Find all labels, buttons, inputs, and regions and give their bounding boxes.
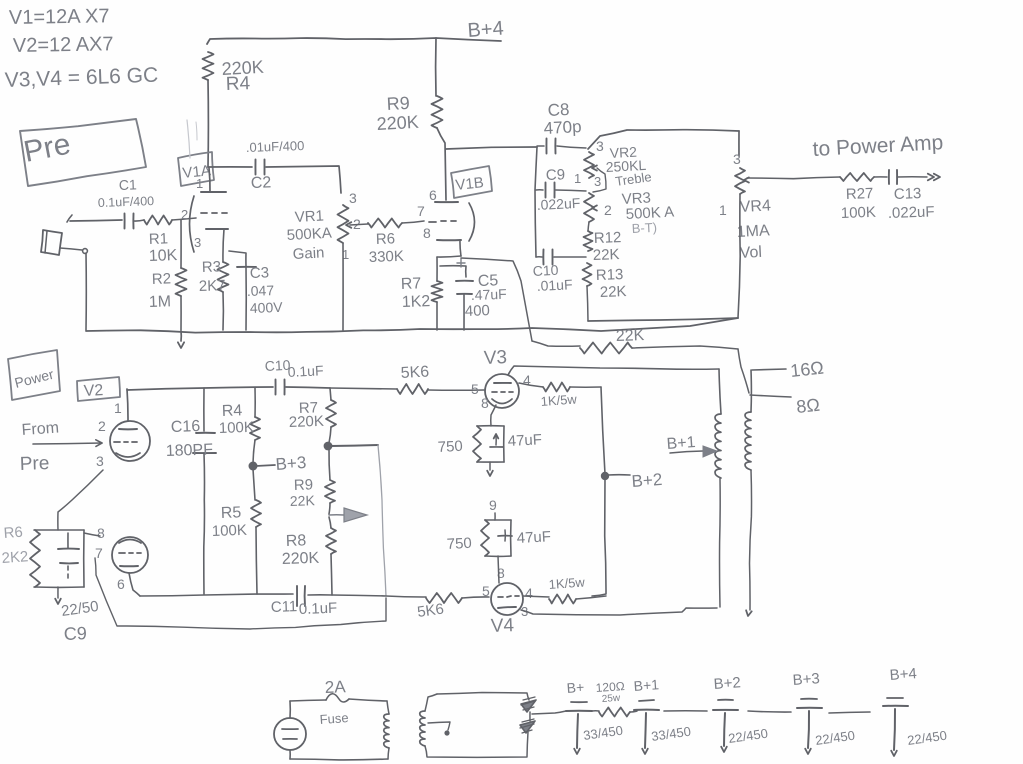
resistor 1K/5w V4 screen [523, 574, 606, 603]
capacitor filter B+4 [883, 665, 948, 756]
wire rectifier output [532, 711, 566, 714]
svg-text:470p: 470p [543, 117, 582, 138]
wire rail to 5K6 V3 [330, 388, 397, 389]
wire tone left rail [535, 147, 537, 257]
svg-text:B+4: B+4 [467, 18, 505, 42]
svg-text:4: 4 [525, 585, 533, 601]
resistor 1K/5w V3 screen [519, 383, 601, 409]
svg-text:6: 6 [429, 187, 437, 203]
tap 8 ohm [750, 395, 821, 417]
svg-text:750: 750 [446, 535, 472, 553]
resistor R5 [212, 469, 261, 594]
svg-text:C16: C16 [171, 418, 201, 436]
svg-text:7: 7 [417, 203, 425, 219]
wire R4 to plate node [207, 80, 209, 167]
svg-text:V2=12 AX7: V2=12 AX7 [13, 33, 114, 57]
wire lower rail left [140, 594, 293, 596]
svg-text:.01uF/400: .01uF/400 [246, 138, 305, 155]
svg-text:1: 1 [719, 202, 727, 218]
wire V4 plate [521, 608, 717, 615]
svg-text:V3: V3 [483, 347, 507, 369]
resistor R1 [144, 216, 178, 265]
svg-text:5K6: 5K6 [416, 600, 445, 621]
svg-text:2: 2 [98, 418, 106, 434]
cathode network V4 750 47uF [446, 497, 551, 583]
pot VR3 bass [584, 189, 675, 236]
input jack [41, 230, 87, 255]
capacitor C5 [440, 259, 507, 330]
svg-text:8Ω: 8Ω [795, 395, 820, 417]
svg-text:22K: 22K [290, 492, 316, 509]
capacitor C16 [166, 388, 216, 594]
net B+4 label [467, 18, 505, 42]
capacitor C3 [229, 251, 283, 330]
capacitor C11 [271, 586, 338, 618]
svg-text:9: 9 [489, 497, 497, 513]
svg-text:100K: 100K [219, 419, 255, 437]
cathode network V3 750 47uF [437, 405, 542, 476]
svg-text:500KA: 500KA [286, 225, 332, 244]
svg-text:B+1: B+1 [633, 676, 660, 694]
svg-text:Gain: Gain [292, 244, 325, 263]
svg-text:3: 3 [96, 453, 104, 469]
svg-text:R27: R27 [846, 185, 874, 203]
svg-text:47uF: 47uF [516, 528, 551, 547]
triode V1A [181, 176, 228, 252]
svg-text:.022uF: .022uF [888, 203, 935, 222]
svg-text:47uF: 47uF [507, 431, 542, 450]
svg-text:R6: R6 [376, 230, 396, 248]
pot VR2 treble [584, 144, 652, 189]
svg-text:B+3: B+3 [275, 453, 307, 474]
tube V2 upper triode [96, 400, 150, 469]
node B+3 [249, 453, 307, 474]
label Pre box [20, 119, 146, 186]
svg-text:22/50: 22/50 [60, 598, 100, 620]
wire jack to C1 [67, 215, 122, 222]
note tube list V3 V4 [4, 64, 158, 92]
svg-text:.01uF: .01uF [536, 276, 573, 294]
svg-text:Power: Power [13, 366, 56, 391]
capacitor C9 [536, 166, 586, 213]
svg-text:V1B: V1B [455, 174, 485, 194]
svg-text:22/450: 22/450 [814, 728, 855, 748]
node B+2 [601, 470, 663, 491]
svg-text:400V: 400V [250, 299, 284, 316]
svg-text:.47uF: .47uF [471, 286, 507, 303]
svg-text:R7: R7 [401, 275, 422, 293]
resistor R2 grid leak [149, 220, 187, 330]
svg-text:B-T): B-T) [631, 220, 657, 236]
svg-text:B+3: B+3 [792, 670, 820, 689]
svg-text:1K/5w: 1K/5w [540, 391, 578, 409]
capacitor filter B+2 [713, 674, 769, 752]
svg-text:400: 400 [465, 302, 491, 320]
note tube list V2 [13, 33, 114, 57]
svg-text:2K7: 2K7 [199, 277, 226, 295]
label V2 box [77, 377, 120, 401]
svg-text:0.1uF: 0.1uF [287, 362, 324, 380]
svg-text:1: 1 [114, 400, 122, 416]
svg-text:22/450: 22/450 [727, 726, 768, 746]
svg-text:3: 3 [594, 174, 601, 189]
wire VR4 wiper out [747, 177, 840, 179]
svg-text:C9: C9 [546, 166, 566, 184]
svg-text:to Power Amp: to Power Amp [812, 131, 944, 161]
wire C1 to R1 [134, 220, 144, 221]
wire screen bus lower [592, 478, 606, 596]
svg-text:22K: 22K [616, 327, 645, 345]
wire V2 lower plate to rail [129, 573, 140, 596]
svg-text:5K6: 5K6 [400, 364, 429, 382]
svg-text:R5: R5 [221, 504, 242, 522]
svg-text:B+4: B+4 [889, 665, 917, 684]
svg-text:R1: R1 [149, 230, 169, 248]
wire cathode to R3 [223, 229, 224, 262]
capacitor C2 [246, 138, 305, 192]
svg-text:22K: 22K [600, 283, 627, 301]
wire VR2 wiper [593, 168, 606, 192]
wire B+1 to B+2 [664, 710, 707, 712]
svg-text:R4: R4 [222, 402, 243, 420]
ground arrow [178, 331, 184, 348]
svg-text:220K: 220K [282, 550, 320, 568]
svg-text:Fuse: Fuse [319, 710, 349, 727]
svg-text:.047: .047 [247, 282, 275, 299]
svg-text:16Ω: 16Ω [789, 358, 824, 381]
wire R27 to C13 [874, 176, 887, 178]
svg-text:R8: R8 [286, 532, 307, 550]
resistor R9 power 22K [290, 449, 335, 514]
svg-text:1: 1 [196, 176, 203, 191]
fuse 2A [290, 677, 387, 727]
label V1A box [178, 152, 214, 186]
wire R1 to grid [172, 218, 196, 220]
stray mark [187, 120, 197, 158]
svg-text:220K: 220K [289, 413, 325, 431]
transformer PT primary [290, 701, 389, 760]
svg-text:Vol: Vol [739, 244, 762, 262]
svg-text:R2: R2 [152, 270, 172, 288]
svg-text:B+2: B+2 [713, 674, 741, 693]
note tube list V1 [9, 5, 110, 29]
svg-text:330K: 330K [369, 248, 405, 266]
svg-text:180PF: 180PF [166, 441, 214, 460]
svg-text:8: 8 [481, 395, 489, 411]
tube V4 [482, 583, 533, 637]
wire plate node to tone stack [446, 147, 537, 149]
svg-text:1MA: 1MA [736, 222, 770, 241]
capacitor filter B+3 [792, 670, 856, 754]
wire C13 arrow out [897, 174, 940, 181]
wire lower grid loop [95, 558, 386, 629]
capacitor C8 [537, 100, 604, 154]
svg-text:B+: B+ [566, 679, 585, 696]
tube V2 lower triode [95, 525, 148, 592]
wire R9 to V1B plate [437, 128, 446, 200]
svg-text:C2: C2 [251, 174, 272, 192]
resistor R4 preamp [203, 52, 265, 95]
capacitor C10 coupling [264, 357, 324, 395]
resistor R7 power 220K [289, 388, 336, 443]
wire C2 to VR1 [266, 166, 341, 193]
svg-text:33/450: 33/450 [650, 724, 691, 744]
wire pin8 to tail [84, 533, 100, 536]
svg-text:5: 5 [482, 583, 490, 599]
resistor R13 [583, 263, 627, 321]
node R7 R9 junction [324, 442, 378, 451]
svg-text:750: 750 [437, 438, 463, 456]
svg-text:V1=12A X7: V1=12A X7 [9, 5, 110, 29]
label to Power Amp [812, 131, 944, 161]
wire V2 plate up [127, 389, 128, 421]
wire 5K6 to V3 grid [428, 389, 484, 391]
AC source [274, 701, 306, 759]
svg-text:R9: R9 [386, 93, 410, 114]
tap 16 ohm [752, 358, 825, 381]
svg-text:From: From [21, 419, 59, 439]
wire R6 to V1B grid [402, 221, 424, 223]
wire VR1 wiper to R6 [350, 224, 368, 225]
wire tone box top [588, 130, 739, 149]
label B+1 arrow [666, 434, 717, 457]
svg-text:B+2: B+2 [631, 470, 663, 491]
wire V3 plate [508, 366, 719, 375]
svg-text:.022uF: .022uF [536, 195, 580, 213]
svg-text:22K: 22K [593, 246, 620, 264]
wire OT primary top lead [719, 369, 721, 414]
svg-text:R6: R6 [3, 524, 23, 542]
capacitor C9 tail [55, 533, 100, 644]
capacitor C10 tone [532, 250, 586, 294]
wire lower rail right [308, 595, 426, 597]
svg-text:R4: R4 [225, 73, 250, 95]
tube V3 [471, 347, 531, 411]
resistor R6 2K2 tail box [1, 524, 84, 588]
svg-text:0.1uF: 0.1uF [299, 600, 338, 618]
wire NFB takeoff [461, 258, 532, 341]
svg-text:R3: R3 [202, 258, 222, 276]
resistor 120 ohm [592, 679, 637, 716]
svg-text:1: 1 [574, 171, 581, 186]
label From Pre [19, 419, 59, 475]
svg-text:2A: 2A [324, 677, 346, 697]
svg-text:V3,V4 = 6L6 GC: V3,V4 = 6L6 GC [4, 64, 158, 92]
resistor 22K NFB [532, 327, 738, 353]
wire screen bus down [601, 387, 605, 474]
capacitor filter B+1 [633, 676, 692, 754]
wire V2 cathode tail [58, 470, 103, 530]
svg-text:C9: C9 [63, 623, 87, 644]
svg-text:1M: 1M [149, 293, 172, 311]
svg-text:25w: 25w [601, 693, 621, 705]
wire tone box bottom [588, 318, 738, 321]
wire B+2 to B+3 [748, 711, 791, 712]
transformer OT secondary [745, 370, 752, 616]
svg-text:100K: 100K [212, 522, 248, 540]
transformer PT secondary [420, 694, 528, 757]
wire PT top to rectifier [437, 693, 529, 701]
pot VR1 gain [286, 190, 361, 330]
svg-text:0.1uF/400: 0.1uF/400 [98, 194, 155, 210]
transformer OT primary [715, 414, 721, 607]
resistor R7 1K2 [401, 257, 443, 330]
svg-text:3: 3 [349, 190, 357, 206]
svg-text:3: 3 [596, 138, 604, 154]
triode V1B [417, 187, 475, 241]
svg-text:Pre: Pre [19, 453, 49, 475]
svg-text:2K2: 2K2 [1, 548, 29, 567]
svg-text:2: 2 [181, 207, 188, 222]
svg-text:C1: C1 [119, 176, 138, 193]
wire jack ground [85, 253, 87, 330]
wire rail after C10 [286, 387, 330, 388]
svg-text:10K: 10K [149, 247, 178, 265]
resistor R9 [376, 38, 442, 134]
svg-text:C11: C11 [271, 598, 298, 616]
label V1B box [451, 166, 492, 198]
wire B+4 rail [207, 38, 501, 44]
resistor R6 330K [368, 219, 404, 266]
wire input arrow [33, 440, 102, 447]
svg-text:22/450: 22/450 [906, 728, 947, 748]
svg-text:C13: C13 [894, 185, 922, 203]
resistor 5K6 V3 [397, 364, 430, 394]
arrow bias tap [329, 508, 367, 522]
pot VR4 volume [719, 151, 771, 262]
svg-text:B+1: B+1 [666, 434, 696, 453]
svg-text:6: 6 [117, 576, 125, 592]
resistor R3 [199, 258, 229, 330]
svg-text:VR1: VR1 [294, 207, 324, 226]
svg-text:7: 7 [95, 545, 103, 561]
wire NFB down to 8 ohm tap [738, 349, 749, 393]
svg-text:33/450: 33/450 [582, 723, 623, 743]
wire B+3 to B+4 [829, 712, 870, 713]
svg-text:1K2: 1K2 [402, 293, 431, 311]
svg-text:R13: R13 [596, 266, 624, 284]
svg-text:R12: R12 [594, 229, 622, 247]
svg-text:V4: V4 [490, 615, 514, 637]
rectifier diodes [520, 697, 536, 733]
svg-text:Pre: Pre [21, 128, 73, 169]
ground rail preamp [86, 318, 738, 333]
capacitor C1 [98, 176, 155, 228]
svg-text:2: 2 [604, 202, 612, 218]
svg-text:8: 8 [97, 525, 105, 541]
svg-text:C3: C3 [250, 264, 270, 282]
capacitor C13 [888, 170, 935, 222]
svg-text:100K: 100K [841, 204, 877, 222]
resistor R8 220K [282, 517, 336, 595]
wire power top rail [127, 387, 273, 390]
resistor R12 [584, 222, 622, 264]
svg-text:1K/5w: 1K/5w [548, 574, 586, 592]
resistor R4 power [219, 388, 260, 463]
label Power box [8, 350, 60, 400]
resistor R27 [840, 173, 876, 222]
capacitor filter B+ [566, 679, 624, 754]
wire VR4 to box bottom [738, 194, 740, 318]
svg-text:VR4: VR4 [739, 197, 771, 216]
svg-text:5: 5 [471, 381, 479, 397]
resistor 5K6 V4 [416, 593, 489, 621]
wire tone box right [738, 131, 740, 156]
svg-text:3: 3 [733, 151, 741, 167]
svg-text:8: 8 [423, 225, 431, 241]
svg-text:3: 3 [194, 235, 201, 250]
svg-text:220K: 220K [376, 112, 419, 134]
wire V1A plate up [209, 168, 210, 192]
wire plate to C2 [208, 166, 252, 168]
wire V1B cathode down [437, 240, 461, 257]
wire junction down to lower rail [378, 445, 386, 596]
svg-text:V2: V2 [83, 382, 104, 400]
